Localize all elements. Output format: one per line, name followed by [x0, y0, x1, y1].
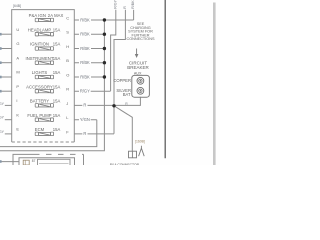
svg-text:87: 87: [32, 159, 36, 163]
svg-text:15A: 15A: [53, 70, 61, 75]
svg-text:K: K: [16, 112, 19, 117]
svg-text:CONNECTIONS: CONNECTIONS: [126, 37, 155, 41]
svg-text:J: J: [66, 101, 68, 106]
svg-text:B: B: [66, 58, 69, 63]
svg-text:O: O: [66, 72, 69, 77]
svg-text:P&A CONNECTOR: P&A CONNECTOR: [110, 163, 140, 165]
svg-text:GY: GY: [0, 116, 5, 120]
svg-text:AUX: AUX: [134, 71, 142, 75]
svg-text:COPPER: COPPER: [113, 78, 131, 83]
svg-text:15A: 15A: [53, 42, 61, 47]
svg-text:C: C: [66, 15, 69, 20]
svg-text:I: I: [16, 98, 17, 103]
svg-text:S: S: [66, 30, 69, 35]
svg-text:15A: 15A: [53, 27, 61, 32]
svg-text:R/BK: R/BK: [80, 60, 90, 65]
svg-text:R/BK: R/BK: [131, 0, 135, 9]
svg-text:R: R: [83, 103, 86, 108]
svg-text:[160B]: [160B]: [135, 140, 145, 144]
svg-text:15A: 15A: [53, 127, 61, 132]
svg-text:ACCESSORY: ACCESSORY: [26, 84, 53, 89]
svg-text:R/GY: R/GY: [80, 89, 90, 94]
svg-text:G: G: [16, 41, 19, 46]
svg-text:BREAKER: BREAKER: [127, 65, 149, 70]
svg-text:INSTRUMENT: INSTRUMENT: [26, 56, 54, 61]
svg-text:2A MAX: 2A MAX: [48, 13, 64, 18]
svg-text:U: U: [16, 27, 19, 32]
svg-text:A: A: [16, 55, 19, 60]
svg-text:BATTERY: BATTERY: [30, 99, 49, 104]
svg-text:P&A IGN: P&A IGN: [29, 13, 46, 18]
svg-text:R: R: [66, 87, 69, 92]
svg-text:Y/GN: Y/GN: [80, 117, 90, 122]
svg-text:LIGHTS: LIGHTS: [32, 70, 48, 75]
svg-text:HEADLAMP: HEADLAMP: [28, 27, 52, 32]
svg-text:15A: 15A: [53, 84, 61, 89]
svg-text:15A: 15A: [53, 56, 61, 61]
svg-text:R/GY: R/GY: [113, 0, 117, 9]
svg-text:R: R: [123, 6, 127, 9]
svg-text:H: H: [66, 44, 69, 49]
svg-text:M: M: [16, 70, 19, 75]
svg-text:GY: GY: [0, 130, 5, 134]
svg-text:15A: 15A: [53, 99, 61, 104]
svg-text:[64B]: [64B]: [13, 4, 21, 8]
svg-text:R/BK: R/BK: [80, 32, 90, 37]
svg-text:IGNITION: IGNITION: [30, 42, 49, 47]
svg-text:E: E: [16, 127, 19, 132]
svg-text:GY: GY: [0, 102, 5, 106]
svg-text:FUEL PUMP: FUEL PUMP: [27, 113, 51, 118]
svg-text:P: P: [16, 84, 19, 89]
svg-text:ECM: ECM: [35, 127, 45, 132]
svg-text:R/BK: R/BK: [80, 17, 90, 22]
svg-text:R/BK: R/BK: [80, 74, 90, 79]
svg-text:BAT: BAT: [123, 92, 131, 97]
svg-text:R: R: [83, 131, 86, 136]
svg-text:R/BK: R/BK: [80, 46, 90, 51]
svg-text:15A: 15A: [53, 113, 61, 118]
